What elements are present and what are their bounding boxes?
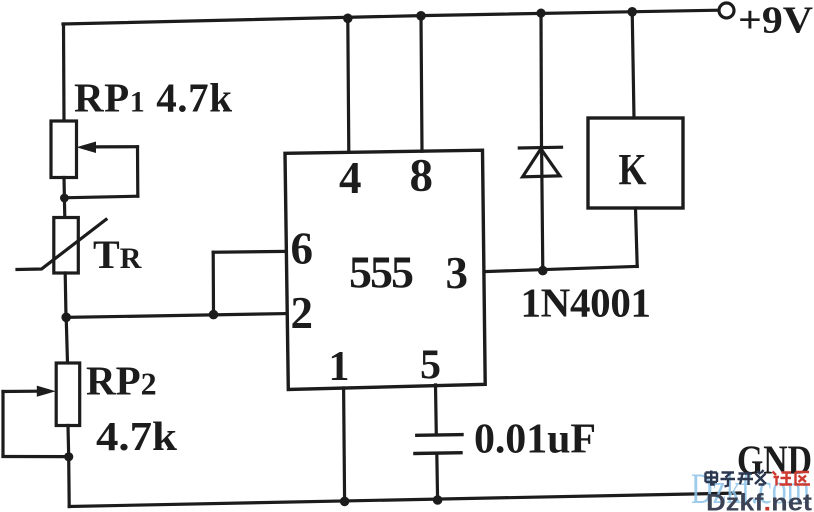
diode D1 triangle — [523, 149, 560, 177]
node RP1 bottom junction — [60, 194, 69, 203]
svg-text:2: 2 — [291, 288, 314, 338]
pin 8 wire — [421, 16, 422, 151]
wire left branch vertical from top rail to RP1 — [62, 24, 66, 122]
wire RP2 wiper loop bottom horizontal — [3, 455, 69, 458]
wire ground bottom rail — [69, 493, 740, 507]
relay K bottom wire to pin3 wire — [636, 208, 638, 266]
node capacitor / ground rail — [433, 495, 443, 505]
node RP2 bottom junction — [64, 452, 73, 461]
node pin1 / ground rail — [340, 497, 350, 507]
node top rail / diode — [536, 9, 545, 18]
svg-text:Dzkf.net: Dzkf.net — [706, 490, 812, 512]
node pin2/pin6 tie junction — [209, 310, 219, 320]
pin 4 wire — [348, 18, 349, 152]
wire junction down to ground rail corner — [67, 457, 71, 507]
wire RP1 bottom to junction — [62, 178, 66, 199]
node top rail / pin 8 — [416, 11, 426, 21]
node top rail / relay — [627, 7, 637, 17]
svg-text:4: 4 — [339, 153, 362, 203]
thermistor TR diagonal stroke — [17, 220, 106, 270]
svg-text:6: 6 — [291, 224, 314, 274]
capacitor C1 bottom plate — [415, 451, 461, 455]
diode D1 top wire from rail — [539, 12, 543, 148]
thermistor TR body — [54, 218, 79, 274]
diode D1 bottom wire to pin3 node — [542, 148, 543, 271]
diode D1 cathode bar — [519, 146, 561, 150]
node A junction TR/RP2/pin2 — [61, 313, 71, 323]
pin 5 wire to capacitor — [434, 385, 438, 435]
wire pin6 branch vertical — [212, 252, 216, 314]
svg-text:K: K — [619, 145, 647, 194]
wire node A down to RP2 — [66, 317, 67, 363]
watermark line 1: 电子开发 (navy strokes, hand-drawn glyph approximations) — [706, 470, 767, 487]
pin 1 wire — [344, 388, 345, 501]
svg-text:RP1 4.7k: RP1 4.7k — [74, 75, 232, 121]
svg-text:1: 1 — [329, 344, 350, 390]
potentiometer RP1 wiper arrow — [76, 142, 96, 154]
svg-text:555: 555 — [349, 247, 414, 298]
potentiometer RP1 body — [51, 121, 77, 178]
svg-text:+9V: +9V — [738, 0, 814, 42]
capacitor C1 bottom wire to ground rail — [435, 453, 439, 500]
svg-text:8: 8 — [410, 150, 434, 202]
wire pin6 branch horizontal to pin 6 — [213, 250, 285, 254]
wire +9V top rail — [63, 10, 718, 24]
node diode / pin 3 wire — [538, 266, 548, 276]
svg-text:4.7k: 4.7k — [96, 413, 177, 459]
wire node A to pin 2 of 555 — [66, 314, 285, 318]
relay K box — [588, 118, 683, 208]
relay K top wire from rail — [632, 12, 634, 118]
pin 3 wire — [485, 266, 637, 271]
wire RP2 bottom to junction — [66, 426, 70, 457]
wire TR bottom to node A — [64, 273, 68, 318]
potentiometer RP2 wiper arrow — [37, 386, 56, 397]
wire RP1 wiper loop right vertical — [136, 147, 140, 197]
wire RP1 wiper loop bottom horizontal — [64, 196, 138, 198]
wire RP2 wiper loop left vertical — [1, 392, 4, 457]
IC U1 555 outline — [285, 150, 485, 389]
wire junction to TR top — [63, 198, 67, 218]
potentiometer RP2 body — [56, 363, 79, 426]
capacitor C1 top plate — [417, 433, 462, 437]
svg-text:0.01uF: 0.01uF — [474, 417, 596, 463]
svg-text:3: 3 — [446, 248, 469, 298]
watermark line 1: 社区 (red strokes, hand-drawn glyph approximations) — [773, 472, 811, 486]
svg-text:5: 5 — [420, 343, 441, 389]
terminal +9V open circle — [719, 3, 734, 18]
node top rail / pin 4 — [343, 13, 353, 23]
svg-text:1N4001: 1N4001 — [521, 280, 652, 326]
